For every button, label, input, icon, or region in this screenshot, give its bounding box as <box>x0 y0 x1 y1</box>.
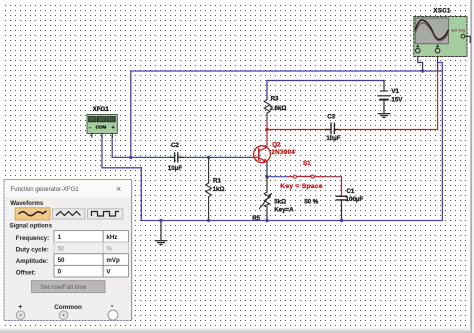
potentiometer R5 <box>260 177 272 221</box>
capacitor C1 <box>336 196 346 220</box>
node: R1 bottom junction <box>207 219 210 222</box>
svg-text:0: 0 <box>58 269 62 276</box>
label XFG1 <box>93 106 110 113</box>
svg-text:V1: V1 <box>391 88 399 95</box>
label S1 key <box>280 160 322 190</box>
wire: VCC from R3 top to V1 <box>267 81 384 100</box>
svg-text:Set rise/Fall time: Set rise/Fall time <box>40 284 87 291</box>
dialog terminals: + Common - <box>16 301 118 320</box>
capacitor C3 <box>326 123 340 133</box>
oscilloscope XSC1 <box>414 17 470 57</box>
svg-text:COM: COM <box>96 125 107 130</box>
svg-text:R5: R5 <box>252 215 260 222</box>
svg-text:Q2: Q2 <box>272 141 281 148</box>
label: Waveforms <box>10 200 44 207</box>
svg-text:50 %: 50 % <box>304 198 319 205</box>
wire: collector output rail (red) <box>267 129 438 131</box>
svg-text:R3: R3 <box>271 95 279 102</box>
field: Duty cycle (disabled) <box>16 242 129 254</box>
node: R5 bottom junction <box>265 219 268 222</box>
svg-text:XSC1: XSC1 <box>433 8 451 15</box>
node: emitter junction <box>265 175 268 178</box>
svg-text:Common: Common <box>54 304 82 311</box>
button: triangle wave <box>52 209 85 219</box>
label XSC1 <box>433 8 451 15</box>
resistor R3 <box>264 100 270 121</box>
label C3 value <box>326 113 340 142</box>
svg-text:50: 50 <box>58 257 65 264</box>
svg-text:Signal options: Signal options <box>9 222 52 229</box>
label C2 value <box>168 142 182 172</box>
wire: C2 to base of Q2 <box>178 156 254 158</box>
svg-text:✕: ✕ <box>116 186 122 193</box>
svg-text:kHz: kHz <box>106 234 117 241</box>
wire: collector column <box>266 120 268 147</box>
ground (bottom rail) <box>155 221 166 245</box>
node: R1 top junction <box>207 156 210 159</box>
svg-text:Amplitude:: Amplitude: <box>16 258 48 265</box>
wire: scope pin A hook <box>418 54 423 72</box>
field: Offset <box>16 265 129 277</box>
svg-text:R1: R1 <box>213 178 221 185</box>
svg-text:Ext Trig: Ext Trig <box>451 28 465 32</box>
button: sine (selected) <box>15 208 50 220</box>
node: input/rail junction <box>129 156 132 159</box>
svg-text:1: 1 <box>58 234 62 241</box>
svg-text:Duty cycle:: Duty cycle: <box>16 246 49 253</box>
dialog: Function generator-XFG1 <box>4 180 132 321</box>
svg-text:+: + <box>112 125 115 131</box>
svg-text:C1: C1 <box>346 188 354 195</box>
svg-text:Offset:: Offset: <box>16 270 36 277</box>
svg-text:mVp: mVp <box>106 257 120 264</box>
svg-text:%: % <box>106 245 112 252</box>
node: pin A rail junction <box>421 69 424 72</box>
button: square wave <box>88 209 123 219</box>
field: Amplitude <box>16 254 129 266</box>
function generator XFG1 (component) <box>87 115 117 138</box>
svg-text:C3: C3 <box>327 113 335 120</box>
label Q2 value <box>271 141 295 155</box>
wire: XFG1 COM to ground rail <box>102 136 141 168</box>
field: Frequency <box>16 231 129 243</box>
svg-text:Waveforms: Waveforms <box>10 200 44 207</box>
label R3 value <box>269 95 286 112</box>
svg-text:C2: C2 <box>171 142 179 149</box>
svg-text:Key = Space: Key = Space <box>280 183 322 190</box>
wire: scope-A input rail (top) <box>131 71 443 157</box>
capacitor C2 <box>170 153 184 162</box>
label C1 value <box>346 188 364 203</box>
svg-text:XFG1: XFG1 <box>93 106 110 113</box>
label R5 value <box>252 198 319 222</box>
label V1 value <box>391 88 403 104</box>
svg-text:10µF: 10µF <box>326 135 340 142</box>
svg-text:5kΩ: 5kΩ <box>274 198 286 205</box>
resistor R1 <box>206 157 212 220</box>
wire: scope pin B to collector rail <box>437 54 439 130</box>
label: Signal options <box>9 222 52 229</box>
wire: emitter to switch <box>267 176 288 178</box>
svg-text:Function generator-XFG1: Function generator-XFG1 <box>11 187 80 193</box>
node: collector junction <box>265 128 268 131</box>
ground (V1) <box>378 108 389 118</box>
button: Set rise/Fall time <box>31 281 105 293</box>
battery V1 <box>378 91 390 108</box>
svg-text:2N3904: 2N3904 <box>271 149 295 156</box>
svg-text:Key=A: Key=A <box>274 206 294 213</box>
svg-text:10µF: 10µF <box>168 165 182 172</box>
svg-text:15V: 15V <box>391 97 403 104</box>
workspace right border <box>471 0 472 333</box>
wire: switch to C1 <box>323 177 342 196</box>
svg-text:S1: S1 <box>303 160 311 167</box>
svg-text:50: 50 <box>58 245 65 252</box>
bottom status band <box>0 329 471 332</box>
svg-text:+: + <box>18 304 22 311</box>
svg-text:1kΩ: 1kΩ <box>213 186 225 193</box>
svg-text:100µF: 100µF <box>346 196 364 203</box>
svg-text:Frequency:: Frequency: <box>16 235 49 242</box>
label R1 value <box>213 178 225 193</box>
svg-text:3.6kΩ: 3.6kΩ <box>269 105 286 112</box>
dialog title <box>11 186 122 193</box>
wire: ground bottom rail <box>141 168 442 221</box>
node: C1 bottom junction <box>340 219 343 222</box>
svg-text:-: - <box>111 301 114 310</box>
transistor Q2 <box>254 146 271 163</box>
wire: right-side vertical to ground rail <box>438 63 443 221</box>
wire: XFG1 output to C2 <box>112 136 174 157</box>
switch S1 <box>288 175 323 178</box>
node: ground junction <box>159 219 162 222</box>
wire: emitter column <box>266 162 268 177</box>
